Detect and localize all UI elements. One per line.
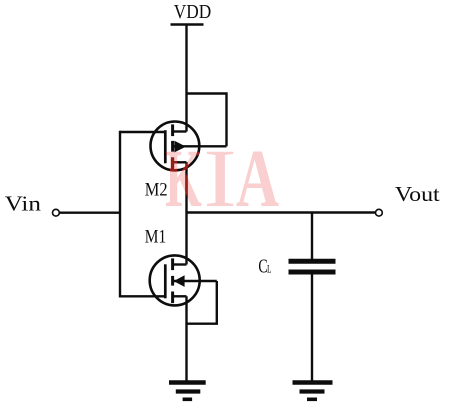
- wire M2 bulk-to-VDD loop: [187, 94, 227, 147]
- terminal Vin: [53, 209, 60, 216]
- wire gate bus to M2 gate: [120, 131, 165, 133]
- wire Vin to gate bus: [59, 211, 120, 213]
- svg-text:M2: M2: [145, 180, 168, 200]
- wire M2 source to M1 drain: [185, 162, 187, 264]
- svg-text:Vout: Vout: [395, 182, 440, 206]
- ground at capacitor CL: [293, 383, 333, 400]
- watermark KIA underlayer: [166, 152, 279, 207]
- power rail VDD bar: [171, 23, 204, 26]
- svg-text:Vin: Vin: [5, 191, 42, 215]
- transistor M2: [151, 121, 227, 170]
- wire gate bus to M1 gate: [120, 295, 165, 297]
- wire output to capacitor CL: [311, 213, 313, 260]
- wire M1 bulk-to-source loop: [187, 281, 217, 324]
- terminal Vout: [376, 209, 383, 216]
- svg-text:M1: M1: [145, 228, 166, 248]
- transistor M1: [150, 255, 217, 305]
- ground at M1 source: [169, 383, 206, 400]
- svg-text:VDD: VDD: [174, 1, 211, 23]
- wire M1 source to ground: [185, 296, 187, 381]
- capacitor CL plates: [289, 261, 336, 272]
- wire output node: [187, 211, 376, 213]
- wire capacitor CL to ground: [311, 275, 313, 382]
- wire VDD to M2 drain: [185, 25, 187, 132]
- wire gate bus vertical: [119, 131, 121, 298]
